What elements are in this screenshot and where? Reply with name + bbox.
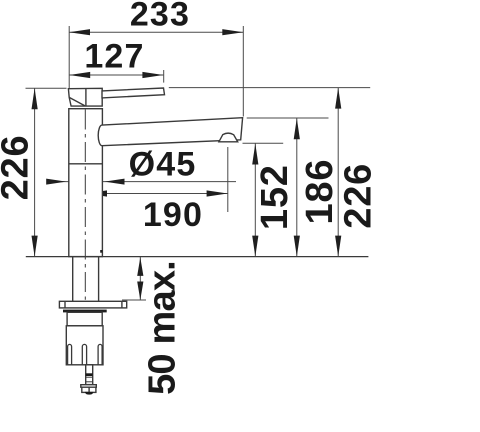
lever handle — [102, 88, 165, 98]
svg-text:226: 226 — [338, 163, 380, 229]
fixing nut body — [82, 387, 96, 392]
shank right edge — [98, 257, 100, 302]
arrowhead 186 bottom — [294, 236, 300, 257]
aerator-bottom extension line (152 level) — [243, 142, 284, 144]
dim 186 line — [296, 118, 298, 256]
mounting flange — [59, 301, 126, 308]
stud thread band — [86, 373, 93, 376]
shank left edge — [72, 257, 74, 302]
arrowhead 233 left — [69, 29, 90, 35]
arrowhead 50max down — [137, 282, 143, 301]
dim 127 extension line right — [163, 70, 165, 83]
arrowhead 226-left bottom — [32, 236, 38, 257]
aerator bump — [219, 133, 238, 142]
fixing nut top bar — [81, 385, 97, 388]
svg-text:226: 226 — [0, 135, 36, 201]
arrowhead 226-right top — [335, 88, 341, 109]
spout — [98, 118, 242, 146]
dim 226-left line — [34, 88, 36, 256]
svg-text:190: 190 — [143, 196, 203, 234]
stud line 1 — [86, 376, 93, 378]
head cap — [68, 88, 102, 106]
top reference line right (faucet top level) — [169, 87, 370, 89]
clamping sleeve — [66, 326, 103, 365]
dim 233 extension line right — [242, 26, 244, 117]
flange end division right — [121, 301, 123, 308]
fixing nut bottom cap (dark) — [86, 393, 93, 394]
fixing nut middle line — [88, 387, 90, 392]
dim D45 line — [47, 181, 237, 183]
arrowhead 226-left top — [32, 88, 38, 109]
gasket (dark) — [63, 310, 107, 313]
threaded stud — [86, 365, 93, 385]
body joint line upper — [69, 163, 103, 165]
spout-tip-top extension line (186 level) — [247, 117, 329, 119]
dim 233 extension line left — [68, 26, 70, 88]
sleeve slot middle — [82, 344, 86, 364]
arrowhead 233 right — [222, 29, 243, 35]
set screw mark on body right edge — [100, 250, 102, 253]
arrowhead 190 right — [207, 190, 228, 196]
svg-text:233: 233 — [130, 0, 190, 34]
arrowhead 127 right — [142, 72, 163, 78]
neck below gasket — [67, 312, 102, 326]
counter line — [26, 256, 369, 258]
stud line 2 — [86, 381, 93, 383]
head cap pivot line — [85, 88, 87, 106]
arrowhead 226-right bottom — [335, 236, 341, 257]
dim 190 line — [86, 193, 228, 195]
arrowhead D45 right (points left at body) — [105, 179, 125, 185]
arrowhead D45 left (points right at body) — [46, 179, 66, 185]
sleeve slot left — [68, 344, 72, 364]
sleeve slot right — [98, 344, 102, 364]
svg-text:127: 127 — [84, 38, 144, 76]
arrowhead 190 left — [86, 190, 107, 196]
dim 226-left top extension line — [26, 87, 67, 89]
arrowhead 186 top — [294, 118, 300, 139]
flange end division left — [64, 301, 66, 308]
svg-text:Ø45: Ø45 — [129, 146, 197, 184]
dim 226-right line — [337, 88, 339, 257]
svg-text:186: 186 — [299, 159, 341, 225]
faucet body column — [69, 109, 103, 257]
svg-text:50 max.: 50 max. — [141, 261, 183, 395]
dim 233 line — [69, 31, 243, 33]
dim 152 line — [254, 144, 256, 257]
centre line (dash-dot) — [84, 110, 86, 300]
dim 50max extension line (flange top) — [122, 299, 146, 301]
svg-text:152: 152 — [254, 164, 296, 230]
head cap diagonal — [69, 97, 85, 105]
dim 190 extension line right (aerator centre) — [227, 147, 229, 212]
dim 50max line — [139, 257, 141, 300]
arrowhead 127 left — [69, 72, 90, 78]
dim 127 line — [69, 74, 163, 76]
arrowhead 152 bottom — [252, 236, 258, 257]
arrowhead 152 top — [252, 144, 258, 165]
arrowhead 50max up — [137, 257, 143, 276]
